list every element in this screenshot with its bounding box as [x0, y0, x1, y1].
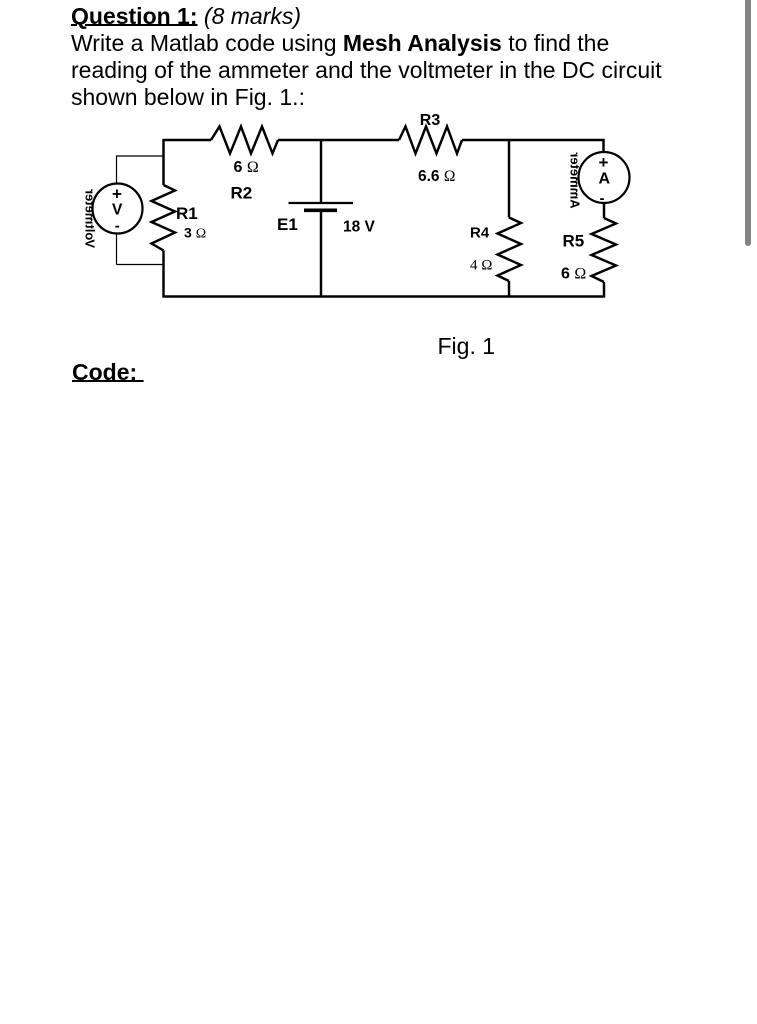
wire top between R2 and R3: [278, 139, 399, 141]
wire left branch lower: [162, 251, 164, 298]
label Voltmeter: [83, 189, 98, 248]
svg-text:4 Ω: 4 Ω: [470, 258, 492, 274]
svg-text:R5: R5: [563, 232, 585, 251]
scrollbar thumb: [745, 0, 751, 246]
svg-text:V: V: [112, 202, 123, 219]
battery E1 plate positive: [289, 202, 354, 204]
svg-text:R4: R4: [470, 225, 490, 242]
svg-text:3 Ω: 3 Ω: [184, 225, 206, 242]
figure caption: [438, 333, 496, 360]
voltmeter V body: [93, 184, 143, 235]
svg-text:+: +: [112, 184, 122, 203]
wire middle branch lower: [320, 210, 322, 296]
svg-text:18 V: 18 V: [343, 219, 376, 236]
svg-text:+: +: [599, 153, 609, 172]
wire middle branch upper: [320, 140, 322, 203]
wire top from R3 to node TR: [462, 139, 604, 141]
svg-text:A: A: [599, 170, 611, 187]
wire ammeter to R5: [603, 203, 605, 218]
svg-text:6 Ω: 6 Ω: [234, 159, 259, 176]
svg-text:-: -: [115, 217, 120, 234]
resistor R2: [211, 127, 278, 154]
svg-text:Ammeter: Ammeter: [568, 152, 583, 208]
svg-text:R2: R2: [231, 184, 253, 203]
resistor R5: [592, 218, 617, 282]
wire R4 branch upper: [508, 140, 510, 218]
svg-text:E1: E1: [277, 215, 298, 234]
svg-text:6 Ω: 6 Ω: [561, 266, 586, 283]
ammeter A body: [579, 152, 630, 207]
question text: [71, 3, 662, 111]
svg-text:R3: R3: [420, 112, 441, 129]
resistor R3: [399, 127, 462, 154]
svg-text:6.6 Ω: 6.6 Ω: [418, 168, 455, 185]
wire voltmeter top: [117, 155, 164, 183]
resistor R4: [498, 218, 522, 282]
wire R4 branch lower: [508, 281, 510, 297]
wire voltmeter bottom: [117, 234, 164, 265]
wire R5 lower: [603, 282, 605, 298]
svg-text:Voltmeter: Voltmeter: [83, 189, 98, 248]
wire ammeter branch upper: [602, 139, 604, 152]
wire top from node TL to R2: [164, 139, 212, 141]
wire bottom: [164, 295, 604, 297]
resistor R1: [152, 185, 176, 251]
wire left branch upper: [162, 139, 164, 185]
svg-text:R1: R1: [176, 204, 198, 223]
code heading: [72, 359, 144, 386]
label Ammeter: [568, 152, 583, 208]
battery E1 plate negative: [304, 209, 337, 213]
